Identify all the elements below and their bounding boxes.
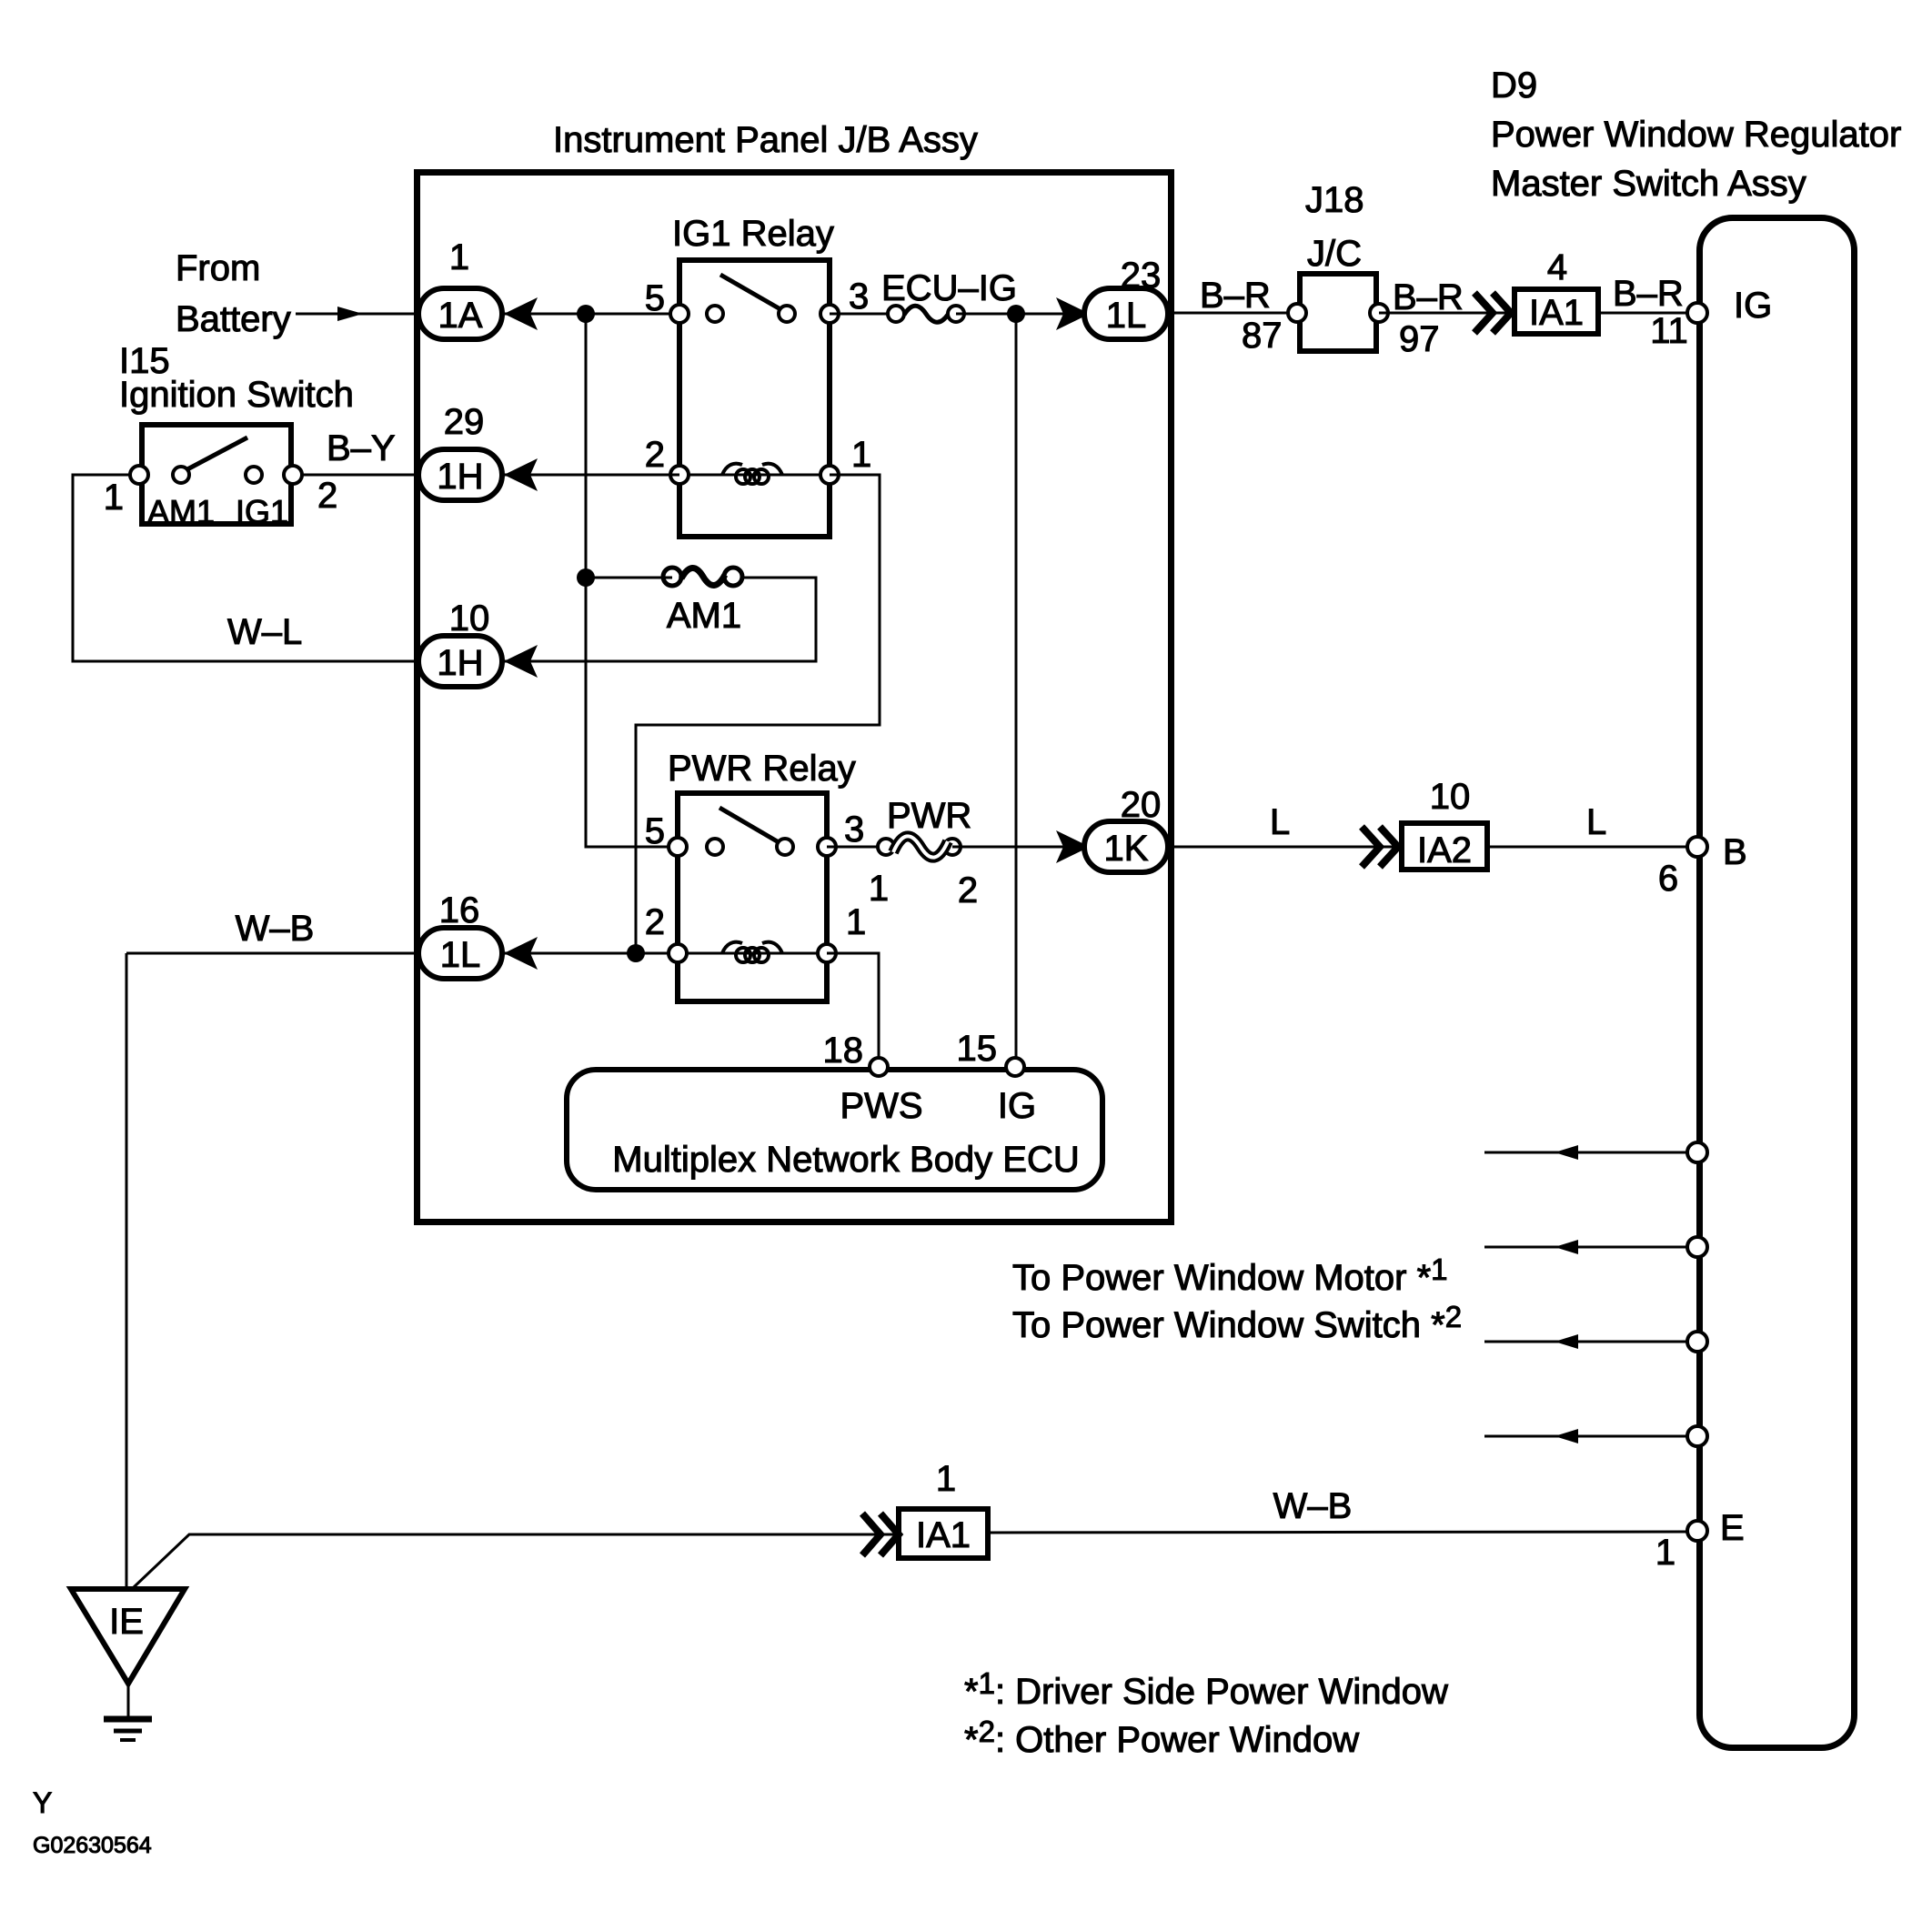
- junction box: Instrument Panel J/B Assy: [418, 173, 1172, 1222]
- arrow into 1L: [1056, 297, 1090, 330]
- svg-text:1A: 1A: [438, 296, 483, 336]
- svg-text:B–Y: B–Y: [327, 428, 396, 468]
- svg-text:1: 1: [936, 1459, 956, 1499]
- svg-text:1L: 1L: [1106, 296, 1147, 336]
- PWR relay pin 1: [818, 944, 836, 962]
- ECU pin 18: [870, 1058, 888, 1076]
- pin E: [1687, 1521, 1707, 1541]
- fuse AM1: [663, 568, 681, 586]
- svg-text:PWS: PWS: [840, 1086, 922, 1126]
- fuse PWR: [827, 846, 886, 849]
- svg-text:J18: J18: [1305, 180, 1364, 220]
- svg-text:1: 1: [851, 435, 871, 475]
- PWR relay pin 2: [669, 944, 687, 962]
- svg-text:4: 4: [1547, 247, 1567, 287]
- svg-text:1K: 1K: [1104, 829, 1149, 869]
- wire W-B left: [126, 952, 418, 955]
- svg-text:97: 97: [1399, 319, 1440, 359]
- arrow after 1H10: [504, 645, 538, 678]
- svg-text:B–R: B–R: [1393, 277, 1464, 317]
- svg-text:1: 1: [1655, 1533, 1675, 1573]
- PWR relay pin 5: [669, 838, 687, 856]
- wire IA1 to IG pin: [1598, 312, 1687, 315]
- wire node to ECU pin 15: [1015, 314, 1018, 1058]
- PWR relay: [678, 793, 827, 1001]
- svg-text:W–B: W–B: [236, 909, 315, 949]
- junction connector J18 J/C: [1300, 274, 1376, 351]
- svg-text:W–L: W–L: [227, 612, 302, 652]
- IG1 relay pin 1: [820, 466, 839, 484]
- connector 1A pin 1: [418, 288, 502, 339]
- wire 1A to IG1 relay pin5: [504, 313, 679, 316]
- multiplex network body ECU: [567, 1070, 1102, 1190]
- arrow after 1L16: [504, 937, 538, 970]
- arrow after 1A: [504, 297, 538, 330]
- chevrons before IA1 bottom: [862, 1514, 899, 1555]
- svg-text:Master Switch Assy: Master Switch Assy: [1491, 164, 1806, 204]
- svg-text:IA2: IA2: [1417, 830, 1472, 870]
- connector 1H pin 10: [418, 636, 502, 687]
- fuse ECU-IG: [830, 313, 896, 316]
- svg-text:87: 87: [1242, 316, 1283, 356]
- wire J18 to IA1: [1379, 312, 1512, 315]
- IG1 relay pin 5: [670, 305, 689, 323]
- wire 1L16 to PWR coil pin2: [504, 952, 678, 955]
- svg-text:L: L: [1586, 802, 1606, 842]
- svg-text:PWR Relay: PWR Relay: [668, 749, 856, 789]
- svg-text:B: B: [1723, 832, 1747, 872]
- IG1 relay: [679, 260, 830, 537]
- node dot ECU-IG: [1007, 305, 1025, 323]
- svg-text:IA1: IA1: [916, 1515, 971, 1555]
- svg-text:B–R: B–R: [1200, 276, 1271, 316]
- wire from battery: [296, 313, 417, 316]
- svg-text:1: 1: [449, 237, 469, 277]
- wire to ground: [126, 953, 128, 1589]
- svg-text:PWR: PWR: [887, 796, 971, 836]
- node dot at 699: [627, 944, 645, 962]
- svg-text:3: 3: [849, 277, 869, 317]
- svg-text:2: 2: [958, 870, 978, 910]
- svg-text:1H: 1H: [437, 643, 483, 683]
- svg-text:J/C: J/C: [1307, 234, 1362, 274]
- svg-text:D9: D9: [1491, 65, 1537, 106]
- pin IG: [1687, 303, 1707, 323]
- svg-text:5: 5: [645, 278, 665, 318]
- svg-text:1: 1: [104, 478, 124, 518]
- svg-text:Power Window Regulator: Power Window Regulator: [1491, 115, 1901, 155]
- connector 1L pin 23: [1084, 288, 1168, 339]
- svg-text:ECU–IG: ECU–IG: [881, 268, 1017, 308]
- svg-text:23: 23: [1121, 256, 1162, 296]
- chevrons before IA1: [1474, 293, 1511, 333]
- ECU pin 15: [1006, 1058, 1024, 1076]
- wire IA1 to E pin: [988, 1532, 1687, 1533]
- svg-text:2: 2: [645, 435, 665, 475]
- svg-text:E: E: [1720, 1508, 1745, 1548]
- svg-text:AM1: AM1: [147, 493, 215, 530]
- connector IA1 pin 1 bottom: [899, 1509, 988, 1558]
- connector 1H pin 29: [418, 449, 502, 500]
- wire IA2 to B pin: [1490, 846, 1687, 849]
- PWR relay coil wire: [678, 952, 827, 955]
- pin B: [1687, 837, 1707, 857]
- node dot AM1: [577, 568, 595, 587]
- wire fuse PWR to 1K: [952, 846, 1084, 849]
- PWR relay coil: [722, 942, 742, 953]
- svg-text:AM1: AM1: [667, 596, 741, 636]
- svg-text:3: 3: [844, 810, 864, 850]
- connector IA2 pin 10: [1402, 823, 1487, 870]
- svg-text:*1: Driver Side Power Window: *1: Driver Side Power Window: [964, 1666, 1448, 1712]
- arrow into 1K: [1056, 830, 1090, 863]
- svg-text:Instrument Panel J/B Assy: Instrument Panel J/B Assy: [553, 120, 978, 160]
- svg-text:From: From: [176, 248, 260, 288]
- ignition switch pin 2: [284, 466, 302, 484]
- ignition switch contacts: [173, 467, 189, 483]
- connector 1L pin 16: [418, 928, 502, 979]
- svg-text:G02630564: G02630564: [33, 1833, 152, 1858]
- svg-text:L: L: [1270, 802, 1290, 842]
- svg-text:2: 2: [645, 902, 665, 942]
- connector IA1 pin 4: [1514, 289, 1598, 334]
- wire W-B bottom: [134, 1534, 897, 1587]
- svg-text:20: 20: [1121, 785, 1162, 825]
- wire PWR coil pin1 to ECU pin 18: [827, 953, 879, 1058]
- IG1 relay coil: [722, 464, 742, 475]
- svg-text:IA1: IA1: [1529, 293, 1584, 333]
- svg-text:29: 29: [444, 402, 485, 442]
- vertical wire from node down: [586, 314, 678, 847]
- IG1 relay pin 2: [670, 466, 689, 484]
- to power window arrows: [1484, 1152, 1687, 1154]
- svg-text:1L: 1L: [440, 935, 481, 975]
- svg-text:IG: IG: [998, 1086, 1036, 1126]
- IG1 relay pin 3: [820, 305, 839, 323]
- PWR relay contact: [707, 839, 723, 855]
- PWR relay pin 3: [818, 838, 836, 856]
- wire B-R to J18: [1168, 312, 1297, 315]
- svg-text:IE: IE: [109, 1602, 144, 1642]
- svg-text:2: 2: [317, 476, 337, 516]
- wire L from 1K to IA2: [1168, 846, 1402, 849]
- IG1 relay contact: [707, 306, 723, 322]
- ground symbol: [127, 1684, 130, 1717]
- svg-text:1: 1: [869, 869, 889, 909]
- svg-text:To Power Window Motor *1: To Power Window Motor *1: [1012, 1252, 1448, 1298]
- svg-text:16: 16: [439, 890, 480, 930]
- svg-text:Multiplex Network Body ECU: Multiplex Network Body ECU: [612, 1140, 1080, 1180]
- wire W-L: [73, 475, 418, 661]
- svg-text:1: 1: [846, 902, 866, 942]
- svg-text:1H: 1H: [437, 457, 483, 497]
- wire 1H10 to AM1 loop: [504, 578, 816, 661]
- svg-text:11: 11: [1650, 311, 1688, 351]
- ignition switch pin 1: [130, 466, 148, 484]
- node dot at 1A line: [577, 305, 595, 323]
- svg-text:Battery: Battery: [176, 299, 291, 339]
- svg-text:W–B: W–B: [1273, 1486, 1353, 1526]
- svg-text:IG1 Relay: IG1 Relay: [672, 214, 834, 254]
- svg-text:18: 18: [823, 1031, 864, 1071]
- connector 1K pin 20: [1084, 821, 1168, 872]
- wire AM1 to node: [586, 577, 672, 579]
- chevrons before IA2: [1362, 827, 1398, 867]
- IG1 relay coil wire: [679, 474, 830, 477]
- svg-text:10: 10: [449, 598, 490, 639]
- svg-text:IG: IG: [1734, 286, 1772, 326]
- svg-text:*2: Other Power Window: *2: Other Power Window: [964, 1715, 1359, 1760]
- svg-text:Ignition Switch: Ignition Switch: [119, 375, 354, 415]
- svg-text:IG1: IG1: [236, 493, 288, 530]
- ground connector IE: [71, 1589, 185, 1684]
- svg-text:To Power Window Switch *2: To Power Window Switch *2: [1012, 1300, 1462, 1345]
- wire fuse to 1L: [956, 313, 1084, 316]
- svg-text:15: 15: [957, 1029, 998, 1069]
- arrow after 1H29: [504, 458, 538, 491]
- svg-text:B–R: B–R: [1613, 274, 1684, 314]
- master switch assy body: [1700, 218, 1855, 1748]
- svg-text:Y: Y: [33, 1786, 52, 1819]
- wire 1H29 to coil pin2: [504, 474, 679, 477]
- wire coil pin1 loop to PWR coil: [636, 475, 880, 953]
- wire B-Y: [302, 474, 418, 477]
- svg-text:10: 10: [1430, 777, 1471, 817]
- svg-text:6: 6: [1658, 859, 1678, 899]
- svg-text:5: 5: [645, 811, 665, 851]
